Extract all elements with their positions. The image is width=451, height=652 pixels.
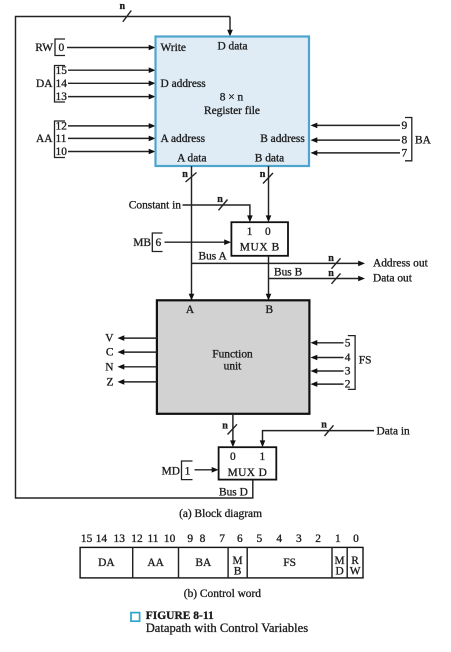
svg-text:Write: Write	[161, 42, 186, 54]
bus width n slash on B data wire	[260, 169, 273, 184]
bus width n slash on top feedback wire	[120, 1, 132, 22]
svg-text:Data in: Data in	[377, 426, 411, 438]
svg-text:RW: RW	[35, 42, 53, 54]
label Constant in	[129, 200, 182, 212]
svg-text:8: 8	[401, 135, 407, 147]
svg-text:3: 3	[345, 366, 351, 378]
svg-text:V: V	[105, 333, 114, 345]
bracket MB bit 6	[152, 233, 162, 252]
svg-text:9: 9	[401, 120, 407, 132]
bracket FS bits 5 4 3 2	[345, 336, 355, 391]
MUX B box	[231, 222, 288, 256]
svg-text:10: 10	[164, 533, 176, 545]
label DA	[36, 78, 53, 90]
label FS	[359, 354, 372, 366]
field DA	[98, 557, 115, 569]
wire BA bit 9	[311, 123, 401, 129]
wire AA bit 12	[68, 123, 156, 129]
svg-text:B: B	[265, 304, 273, 316]
svg-text:Address out: Address out	[373, 258, 429, 270]
wire MD select to MUX D	[195, 467, 219, 473]
svg-text:DA: DA	[36, 78, 53, 90]
field RW	[350, 555, 361, 578]
svg-text:W: W	[350, 566, 361, 578]
svg-text:13: 13	[114, 533, 126, 545]
svg-text:14: 14	[56, 78, 68, 90]
svg-text:12: 12	[56, 121, 68, 133]
label Bus B	[274, 267, 303, 279]
svg-text:11: 11	[56, 133, 67, 145]
svg-text:8 × n: 8 × n	[220, 92, 244, 104]
wire Function unit output to MUX D input 0	[230, 414, 236, 447]
svg-text:DA: DA	[98, 557, 115, 569]
label MB	[133, 237, 151, 249]
caption Datapath with Control Variables	[146, 621, 309, 635]
label Data out	[373, 273, 413, 285]
svg-text:MB: MB	[133, 237, 151, 249]
register file box 8 x n	[156, 37, 310, 167]
svg-text:MD: MD	[162, 466, 180, 478]
wire status N	[118, 364, 158, 370]
bus width n slash on Bus A	[328, 253, 340, 269]
svg-text:7: 7	[401, 148, 407, 160]
svg-text:unit: unit	[224, 360, 243, 372]
svg-text:C: C	[106, 347, 114, 359]
svg-text:0: 0	[265, 226, 271, 238]
svg-text:15: 15	[56, 65, 68, 77]
svg-text:0: 0	[58, 42, 64, 54]
caption (b) Control word	[184, 588, 261, 600]
svg-text:Constant in: Constant in	[129, 200, 182, 212]
svg-text:1: 1	[335, 533, 341, 545]
wire MB select to MUX B	[165, 239, 232, 245]
wire: into D data top of register file	[227, 17, 233, 37]
MUX D box	[219, 447, 277, 479]
control word bit numbers 15..0	[81, 533, 359, 545]
wire Constant in to MUX B input 1	[183, 205, 253, 222]
svg-text:Bus B: Bus B	[274, 267, 303, 279]
svg-text:n: n	[328, 253, 334, 264]
svg-text:A data: A data	[177, 153, 206, 165]
bracket RW bit 0	[55, 39, 65, 56]
svg-text:A: A	[186, 304, 195, 316]
bus width n slash on Bus B	[328, 268, 340, 284]
svg-text:8: 8	[200, 533, 206, 545]
svg-text:D: D	[335, 566, 343, 578]
wire AA bit 10	[68, 149, 156, 155]
wire DA bit 13	[68, 94, 156, 100]
bracket DA bits 15 14 13	[55, 65, 68, 103]
svg-text:FS: FS	[283, 557, 296, 569]
svg-text:n: n	[222, 420, 228, 431]
svg-text:n: n	[321, 420, 327, 431]
svg-text:1: 1	[185, 466, 191, 478]
svg-text:Bus D: Bus D	[219, 486, 248, 498]
bus width n slash on Constant in wire	[217, 194, 227, 211]
svg-text:(b) Control word: (b) Control word	[184, 588, 261, 600]
svg-text:4: 4	[345, 352, 351, 364]
wire Bus B to Data out	[269, 276, 366, 282]
svg-text:5: 5	[256, 533, 262, 545]
svg-text:Data out: Data out	[373, 273, 413, 285]
svg-text:n: n	[182, 169, 188, 180]
svg-text:5: 5	[345, 337, 351, 349]
wire Bus A to Address out	[192, 261, 366, 267]
bracket BA bits 9 8 7	[401, 118, 411, 161]
label Address out	[373, 258, 429, 270]
wire FS bit 4	[311, 355, 344, 361]
svg-text:n: n	[260, 169, 266, 180]
svg-text:D address: D address	[161, 78, 207, 90]
svg-text:Z: Z	[107, 377, 114, 389]
label Data in	[377, 426, 411, 438]
wire MUX B output to Function unit input B	[266, 256, 272, 301]
control word table	[80, 547, 363, 578]
wire DA bit 14	[68, 81, 156, 87]
label BA	[415, 135, 432, 147]
field BA	[195, 557, 212, 569]
bracket AA bits 12 11 10	[55, 121, 68, 159]
svg-text:B: B	[234, 566, 242, 578]
svg-text:6: 6	[155, 237, 161, 249]
wire status C	[118, 349, 158, 355]
bus width n slash on A data wire	[182, 169, 196, 182]
bracket MD bit 1	[182, 461, 193, 480]
svg-text:BA: BA	[195, 557, 212, 569]
svg-text:13: 13	[56, 91, 68, 103]
wire RW to Write input	[67, 45, 156, 51]
svg-text:Register file: Register file	[204, 105, 260, 117]
svg-text:10: 10	[56, 146, 68, 158]
label AA	[36, 133, 53, 145]
svg-text:MUX B: MUX B	[240, 241, 280, 253]
figure marker square	[131, 613, 140, 622]
wire Data in to MUX D input 1	[260, 431, 374, 448]
wire A data to Function unit input A	[189, 166, 195, 301]
svg-text:4: 4	[276, 533, 282, 545]
function unit box	[157, 300, 310, 414]
svg-text:0: 0	[353, 533, 359, 545]
svg-text:0: 0	[230, 451, 236, 463]
svg-text:(a) Block diagram: (a) Block diagram	[179, 508, 262, 520]
wire status Z	[118, 379, 158, 385]
svg-text:11: 11	[148, 533, 159, 545]
svg-text:Bus A: Bus A	[199, 251, 228, 263]
wire FS bit 2	[311, 381, 344, 387]
svg-text:7: 7	[219, 533, 225, 545]
svg-text:B data: B data	[255, 153, 284, 165]
svg-text:9: 9	[187, 533, 193, 545]
svg-text:D data: D data	[217, 40, 247, 52]
wire FS bit 5	[311, 340, 344, 346]
svg-text:FS: FS	[359, 354, 372, 366]
svg-text:MUX D: MUX D	[228, 467, 268, 479]
bus width n slash on function output	[222, 420, 237, 434]
svg-text:12: 12	[131, 533, 143, 545]
wire status V	[118, 335, 158, 341]
field AA	[147, 557, 164, 569]
wire BA bit 7	[311, 150, 401, 156]
field MB	[233, 555, 243, 578]
label RW	[35, 42, 53, 54]
wire BA bit 8	[311, 137, 401, 143]
wire B data to MUX B input 0	[266, 166, 272, 222]
svg-text:6: 6	[237, 533, 243, 545]
wire DA bit 15	[68, 67, 156, 73]
svg-text:A address: A address	[161, 133, 206, 145]
svg-text:Function: Function	[212, 348, 253, 360]
svg-text:Datapath with Control Variable: Datapath with Control Variables	[146, 621, 309, 635]
svg-text:AA: AA	[147, 557, 164, 569]
field FS	[283, 557, 296, 569]
svg-text:15: 15	[81, 533, 93, 545]
wire: Bus D feedback loop (left and bottom)	[16, 17, 253, 499]
svg-text:1: 1	[247, 226, 253, 238]
svg-text:14: 14	[96, 533, 108, 545]
caption FIGURE 8-11	[146, 610, 214, 622]
svg-text:n: n	[120, 1, 126, 12]
svg-text:3: 3	[296, 533, 302, 545]
svg-text:BA: BA	[415, 135, 432, 147]
svg-text:2: 2	[315, 533, 321, 545]
label MD	[162, 466, 180, 478]
field MD	[335, 555, 345, 578]
bus width n slash on Data in wire	[321, 420, 333, 437]
svg-text:N: N	[105, 361, 113, 373]
caption (a) Block diagram	[179, 508, 262, 520]
wire AA bit 11	[68, 136, 156, 142]
labels V C N Z	[105, 333, 114, 389]
label Bus D	[219, 486, 248, 498]
svg-text:n: n	[217, 194, 223, 205]
svg-text:n: n	[328, 268, 334, 279]
svg-text:B address: B address	[260, 133, 305, 145]
label Bus A	[199, 251, 228, 263]
svg-text:1: 1	[260, 451, 266, 463]
wire FS bit 3	[311, 368, 344, 374]
svg-text:AA: AA	[36, 133, 53, 145]
